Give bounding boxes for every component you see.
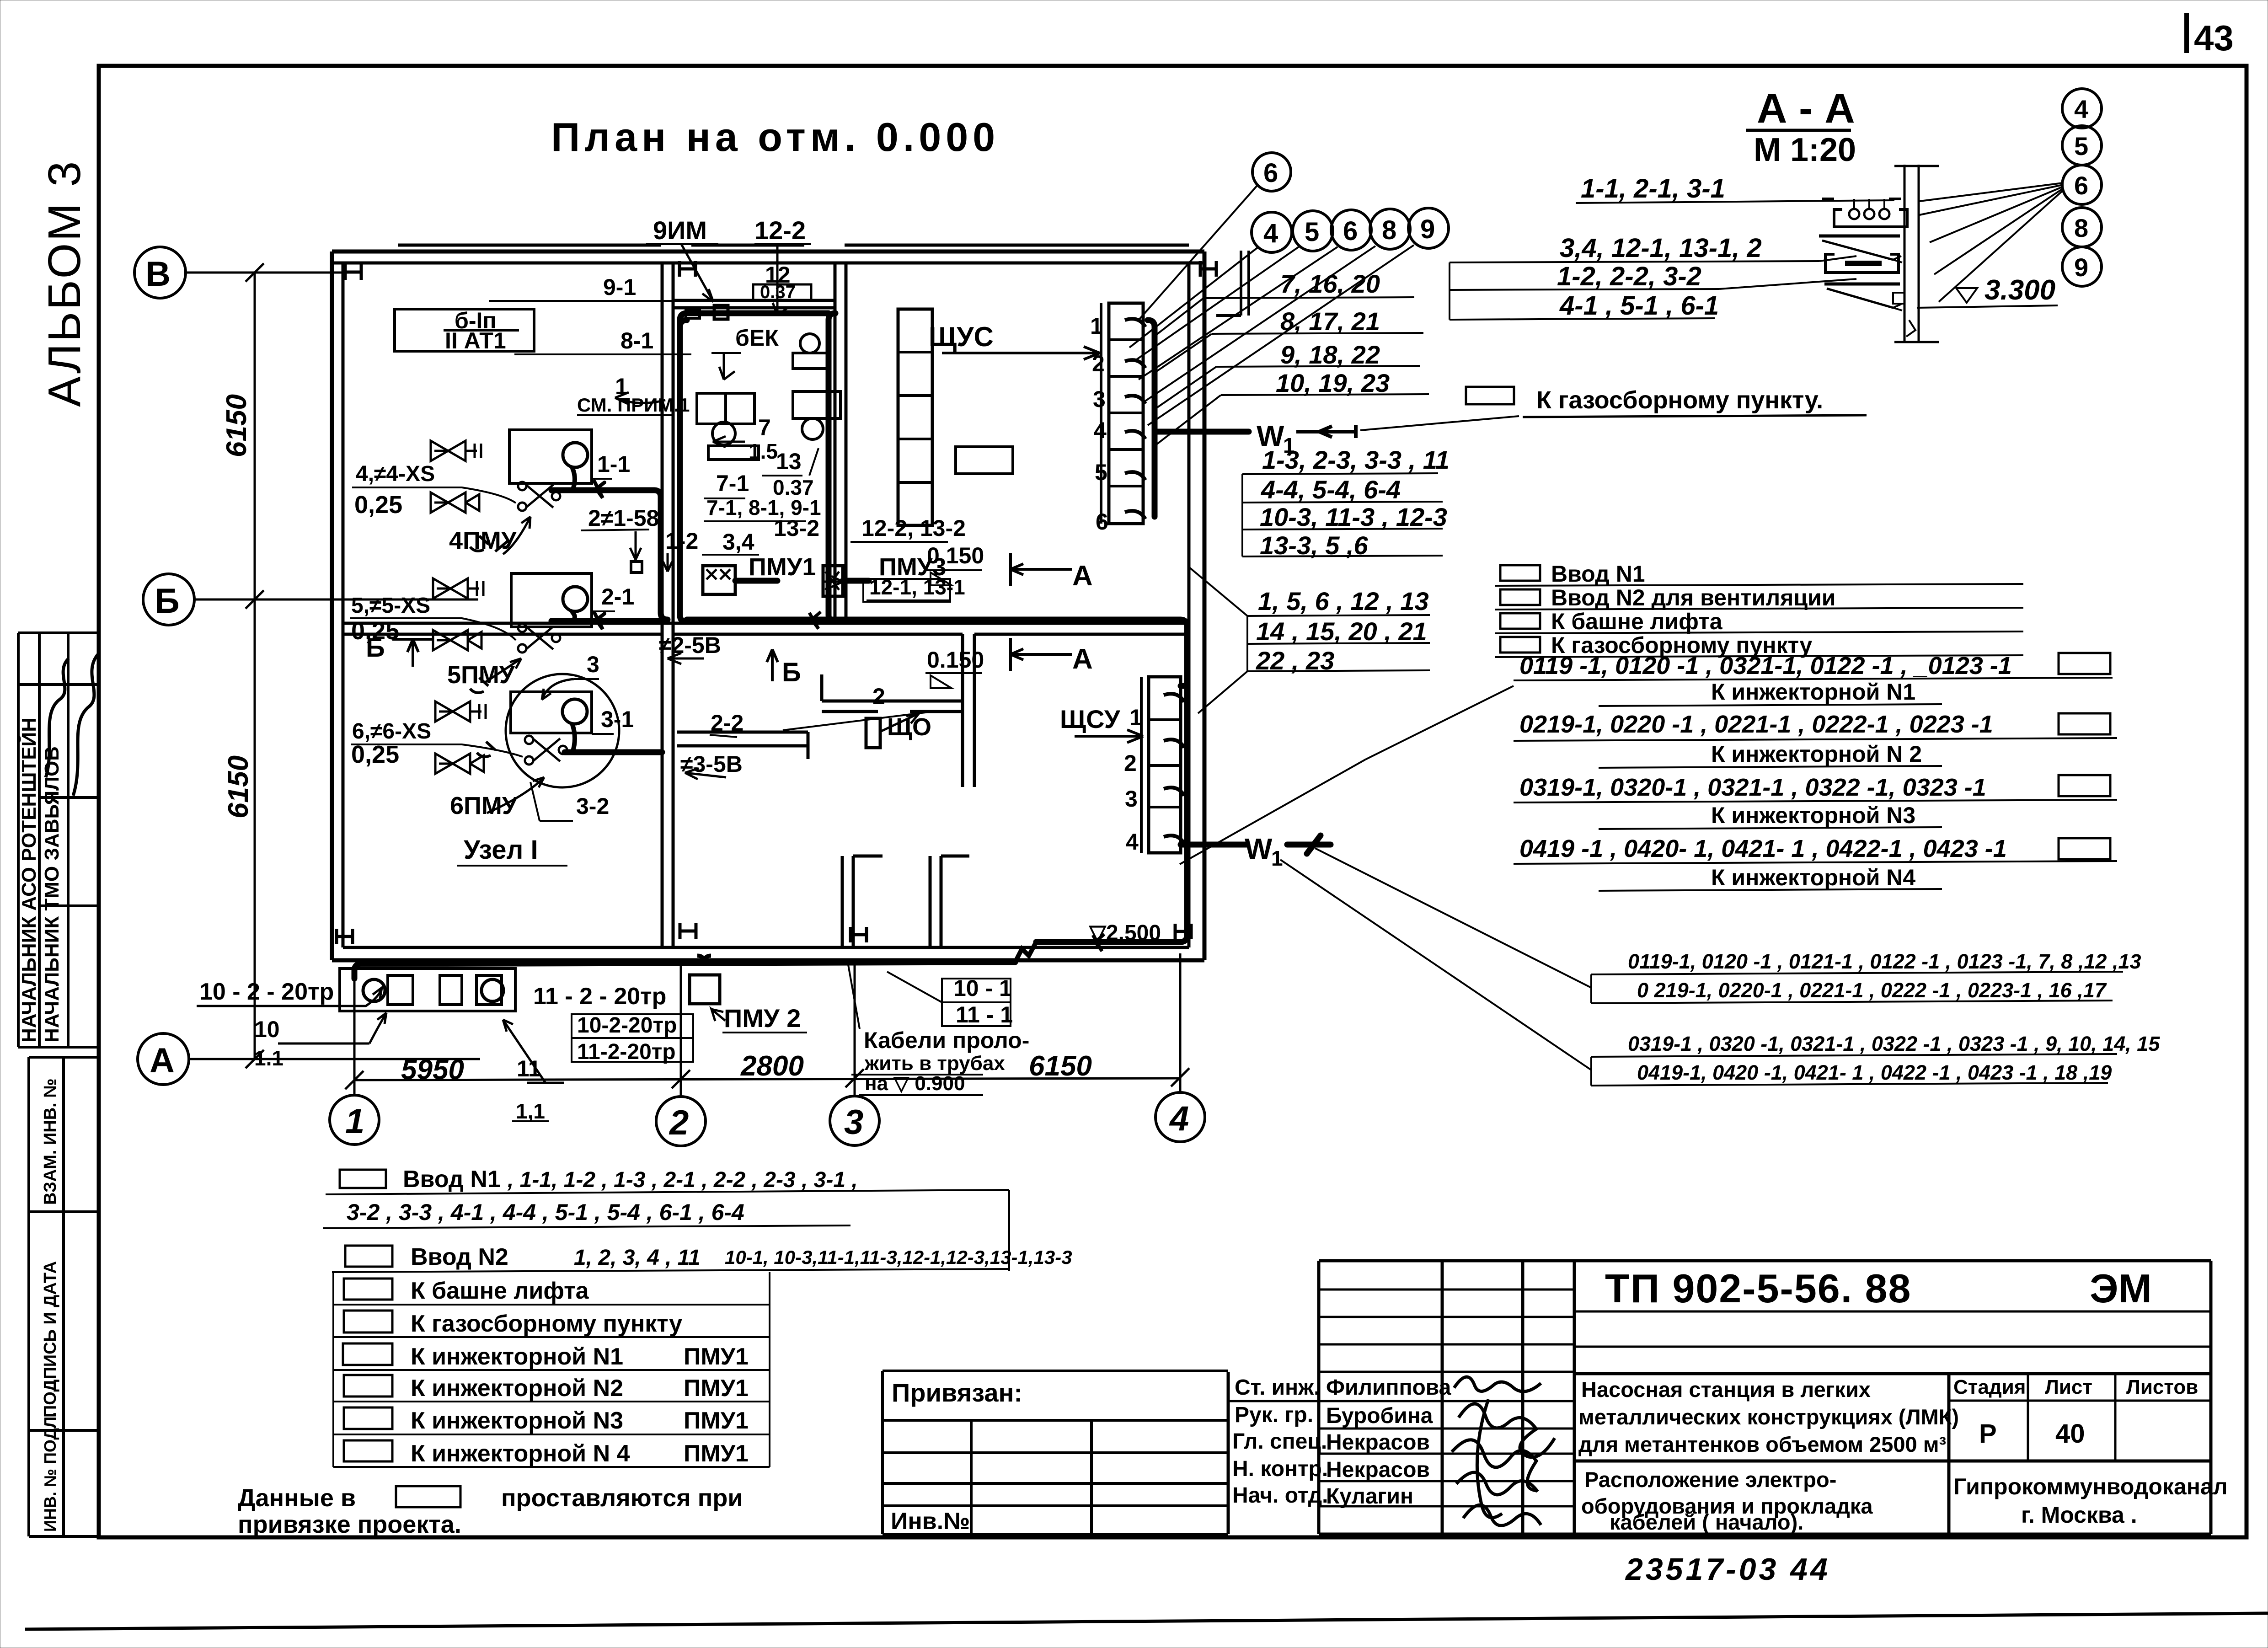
svg-text:Ввод N1: Ввод N1: [403, 1166, 501, 1193]
svg-text:6: 6: [2074, 171, 2088, 200]
svg-text:М 1:20: М 1:20: [1754, 132, 1856, 168]
ЩУС cable hooks: [1125, 319, 1145, 519]
svg-text:привязке проекта.: привязке проекта.: [238, 1511, 461, 1538]
svg-text:11 - 1: 11 - 1: [956, 1002, 1013, 1027]
svg-text:0 219-1, 0220-1 , 0221-1 ,: 0 219-1, 0220-1 , 0221-1 , 0222 -1 , 022…: [1637, 979, 2107, 1002]
svg-text:8, 17, 21: 8, 17, 21: [1280, 307, 1380, 336]
svg-text:1.1: 1.1: [254, 1046, 283, 1070]
fan from circle 6 to detail: [1920, 183, 2063, 302]
svg-text:К газосборному пункту.: К газосборному пункту.: [1536, 386, 1823, 414]
svg-text:0319-1, 0320-1 , 0321-1 , 0: 0319-1, 0320-1 , 0321-1 , 0322 -1, 0323 …: [1519, 774, 1986, 801]
grid axis bubble А: [138, 1033, 189, 1085]
grid axis bubble 2: [656, 1097, 706, 1146]
svg-text:4: 4: [1263, 219, 1278, 248]
branches to pumps: [551, 487, 654, 493]
svg-text:К инжекторной N1: К инжекторной N1: [1711, 679, 1915, 705]
svg-text:Стадия: Стадия: [1953, 1376, 2026, 1398]
svg-text:10, 19, 23: 10, 19, 23: [1276, 369, 1390, 397]
svg-text:12-2, 13-2: 12-2, 13-2: [861, 515, 966, 541]
little flex connectors left of pumps: [470, 536, 509, 757]
right circle column 4 5 6 8 9: [2062, 89, 2102, 286]
pipe at top right corner: [1216, 251, 1249, 316]
svg-text:Инв.№: Инв.№: [891, 1508, 970, 1535]
svg-text:6: 6: [1263, 158, 1278, 188]
svg-text:металлических конструкциях (Л: металлических конструкциях (ЛМК): [1578, 1405, 1959, 1429]
svg-text:6150: 6150: [223, 755, 254, 819]
svg-text:4: 4: [2074, 95, 2088, 123]
А-А upper cable tray with cables: [1834, 209, 1907, 227]
svg-text:1,1: 1,1: [516, 1099, 545, 1123]
svg-text:К инжекторной N 2: К инжекторной N 2: [1711, 741, 1922, 767]
svg-text:Буробина: Буробина: [1326, 1404, 1433, 1428]
svg-text:6,≠6-ХS: 6,≠6-ХS: [352, 719, 431, 744]
svg-text:2800: 2800: [740, 1050, 804, 1082]
svg-text:ИНВ. № ПОДЛ.: ИНВ. № ПОДЛ.: [41, 1412, 59, 1532]
wall window lines top: [691, 244, 804, 247]
svg-text:0.150: 0.150: [927, 647, 984, 673]
junction symbols near pumps: [518, 482, 567, 765]
corridor wall horizontal: [343, 622, 1189, 625]
Стадия Лист Листов: [1953, 1376, 2198, 1398]
grid axis bubble В: [134, 247, 186, 298]
roles and names: [1232, 1375, 1451, 1509]
second list group: [1256, 587, 1429, 675]
box lists below W1 upper: [1260, 445, 1450, 560]
svg-text:1-1: 1-1: [597, 451, 630, 477]
svg-text:2≠1-58: 2≠1-58: [588, 505, 659, 531]
lists left of А-А: [1557, 174, 1762, 321]
привязан table: [883, 1370, 1228, 1372]
svg-text:0119-1, 0120 -1 , 0121-1 ,: 0119-1, 0120 -1 , 0121-1 , 0122 -1 , 012…: [1628, 950, 2141, 973]
svg-text:7: 7: [758, 415, 771, 440]
tray break marks: [809, 612, 1104, 951]
svg-text:ЭМ: ЭМ: [2090, 1266, 2152, 1311]
partition segments near 2-2 room: [677, 731, 808, 734]
svg-text:0.150: 0.150: [927, 543, 984, 568]
ЩСУ feeder: [1181, 683, 1187, 689]
grid axis bubble Б: [143, 574, 194, 625]
box ПМУ1: [703, 566, 735, 594]
А-А wall section: [1904, 165, 1906, 343]
данные box: [396, 1486, 460, 1507]
svg-text:9ИМ: 9ИМ: [653, 216, 707, 245]
svg-text:Узел I: Узел I: [464, 835, 538, 865]
svg-text:II АТ1: II АТ1: [445, 328, 506, 353]
svg-text:Гипрокоммунводоканал: Гипрокоммунводоканал: [1953, 1474, 2228, 1499]
legend boxes Ввод rows: [1500, 565, 1540, 581]
box ПМУ2: [690, 975, 720, 1004]
svg-text:проставляются при: проставляются при: [501, 1484, 743, 1512]
svg-text:Рук. гр.: Рук. гр.: [1235, 1403, 1313, 1427]
узел I detail circle: [506, 674, 619, 787]
svg-text:0,25: 0,25: [354, 491, 402, 519]
svg-text:3-1: 3-1: [601, 706, 634, 732]
svg-text:1.5: 1.5: [749, 439, 778, 463]
svg-text:жить в трубах: жить в трубах: [864, 1052, 1005, 1075]
svg-text:5950: 5950: [401, 1054, 464, 1086]
svg-text:Листов: Листов: [2126, 1376, 2198, 1398]
right vertical down: [1180, 620, 1187, 942]
svg-text:для метантенков объемом 250: для метантенков объемом 2500 м³: [1578, 1432, 1946, 1456]
svg-text:План на отм. 0.000: План на отм. 0.000: [551, 114, 1000, 160]
svg-text:К инжекторной N3: К инжекторной N3: [411, 1407, 623, 1434]
interior wall vertical 3 (x~2118): [961, 634, 964, 787]
svg-text:23517-03 44: 23517-03 44: [1625, 1552, 1830, 1587]
svg-text:А - А: А - А: [1757, 85, 1855, 132]
svg-text:Филиппова: Филиппова: [1326, 1375, 1451, 1400]
svg-text:К башне лифта: К башне лифта: [1551, 609, 1723, 634]
svg-text:2: 2: [872, 684, 885, 709]
А-А detail drawing: [1819, 165, 2058, 343]
title block grid: [1227, 1372, 1230, 1534]
svg-text:НАЧАЛЬНИК АСО РОТЕНШТЕЙН: НАЧАЛЬНИК АСО РОТЕНШТЕЙН: [17, 717, 40, 1043]
svg-text:10: 10: [254, 1017, 280, 1042]
callout circle 6 (standalone): [1252, 153, 1291, 191]
bottom legend Ввод N2 box: [345, 1246, 392, 1267]
vertical run along wall1: [680, 320, 687, 622]
svg-text:Б: Б: [155, 582, 180, 621]
svg-text:6150: 6150: [221, 394, 252, 457]
legend box к газосборному пункту: [1466, 387, 1514, 404]
svg-text:≠2-5В: ≠2-5В: [659, 632, 721, 658]
svg-text:13: 13: [776, 449, 802, 474]
pump unit 2-1: [511, 573, 592, 627]
valve rows (bowties): [431, 441, 486, 774]
svg-text:Р: Р: [1979, 1419, 1997, 1449]
small bottom partitions: [841, 856, 844, 947]
stamp signatures: [46, 658, 69, 777]
lower cable lists: [1628, 950, 2160, 1084]
partition near ЩО: [822, 700, 963, 703]
bottom dimension line: [354, 1078, 1180, 1080]
svg-text:А: А: [1072, 560, 1093, 592]
grid axis bubble 3: [830, 1096, 879, 1145]
svg-text:5: 5: [1095, 460, 1107, 485]
circles row 4 5 6 8 9: [1252, 153, 1449, 252]
svg-text:3: 3: [844, 1103, 863, 1142]
level mark 3.300: [1956, 288, 1977, 303]
svg-text:10-2-20тр: 10-2-20тр: [577, 1013, 677, 1038]
svg-text:10 - 2 - 20тр: 10 - 2 - 20тр: [199, 979, 334, 1005]
outer wall left: [330, 251, 334, 960]
svg-text:0419 -1 , 0420- 1, 0421- 1 ,: 0419 -1 , 0420- 1, 0421- 1 , 0422-1 , 04…: [1519, 835, 2007, 862]
svg-text:3: 3: [1125, 786, 1138, 812]
svg-text:3-2: 3-2: [576, 793, 609, 819]
svg-text:40: 40: [2055, 1419, 2085, 1449]
svg-text:43: 43: [2194, 18, 2234, 58]
svg-text:Б: Б: [366, 633, 385, 663]
svg-text:2: 2: [1124, 750, 1137, 776]
svg-text:1: 1: [1271, 846, 1283, 870]
interior wall vertical 2 (x~1838): [834, 263, 837, 623]
svg-text:0419-1, 0420 -1, 0421- 1 ,: 0419-1, 0420 -1, 0421- 1 , 0422 -1 , 042…: [1637, 1061, 2112, 1084]
corridor run: [687, 617, 1180, 623]
svg-text:ТП 902-5-56. 88: ТП 902-5-56. 88: [1605, 1266, 1912, 1311]
svg-text:3: 3: [1093, 386, 1106, 412]
svg-text:Ввод N2: Ввод N2: [411, 1244, 508, 1270]
svg-text:3,4: 3,4: [722, 529, 754, 555]
middle room machines: [714, 305, 728, 319]
инжекторная rows: [1519, 652, 2012, 862]
svg-text:4: 4: [1169, 1099, 1189, 1138]
svg-text:7-1: 7-1: [716, 471, 749, 496]
svg-text:К башне лифта: К башне лифта: [411, 1278, 589, 1304]
lists right of ЩУС: [1276, 269, 1390, 397]
below-wall run to left: [361, 962, 1015, 964]
svg-text:5ПМУ: 5ПМУ: [447, 661, 515, 689]
svg-text:, 1-1, 1-2 , 1-3 , 2-1 , 2-2: , 1-1, 1-2 , 1-3 , 2-1 , 2-2 , 2-3 , 3-1…: [507, 1168, 858, 1192]
svg-text:К инжекторной N2: К инжекторной N2: [411, 1375, 623, 1402]
svg-text:1, 5, 6 , 12 , 13: 1, 5, 6 , 12 , 13: [1258, 587, 1429, 615]
callout circles 4 5 6 8 9 row: [1252, 212, 1292, 252]
project description: [1578, 1377, 1959, 1534]
svg-text:2-1: 2-1: [601, 584, 634, 610]
top connect: [680, 320, 687, 327]
svg-text:АЛЬБОМ 3: АЛЬБОМ 3: [39, 160, 90, 407]
svg-text:10-3, 11-3 , 12-3: 10-3, 11-3 , 12-3: [1260, 503, 1447, 531]
svg-text:4,≠4-ХS: 4,≠4-ХS: [356, 462, 435, 486]
svg-text:9: 9: [1420, 214, 1435, 244]
svg-text:ВЗАМ. ИНВ. №: ВЗАМ. ИНВ. №: [41, 1078, 60, 1205]
svg-text:5: 5: [2074, 132, 2088, 161]
W1 upper arrow: [1296, 425, 1356, 438]
bottom legend Ввод N1 box: [340, 1170, 386, 1188]
svg-text:СМ. ПРИМ.1: СМ. ПРИМ.1: [577, 394, 690, 416]
vestibule wall in middle room: [673, 299, 835, 302]
svg-text:8: 8: [2074, 214, 2088, 242]
svg-text:К инжекторной N 4: К инжекторной N 4: [411, 1440, 630, 1467]
svg-text:13-2: 13-2: [774, 515, 819, 541]
svg-text:0219-1, 0220 -1 , 0221-1 ,: 0219-1, 0220 -1 , 0221-1 , 0222-1 , 0223…: [1519, 711, 1993, 738]
svg-text:А: А: [150, 1041, 175, 1080]
svg-text:НАЧАЛЬНИК ТМО ЗАВЬЯЛОВ: НАЧАЛЬНИК ТМО ЗАВЬЯЛОВ: [41, 746, 63, 1043]
svg-text:1: 1: [345, 1102, 364, 1141]
svg-text:Расположение электро-: Расположение электро-: [1584, 1467, 1836, 1492]
svg-text:11 - 2 - 20тр: 11 - 2 - 20тр: [533, 983, 666, 1010]
svg-text:3-2 , 3-3 , 4-1 , 4-4 , 5-1: 3-2 , 3-3 , 4-1 , 4-4 , 5-1 , 5-4 , 6-1 …: [347, 1199, 744, 1225]
svg-text:6: 6: [1343, 216, 1358, 246]
signatures scribbles: [1452, 1377, 1555, 1525]
svg-text:4-1 , 5-1 , 6-1: 4-1 , 5-1 , 6-1: [1559, 291, 1719, 321]
svg-text:г. Москва .: г. Москва .: [2021, 1502, 2137, 1528]
bottom run right section: [1036, 939, 1180, 945]
svg-text:Лист: Лист: [2045, 1376, 2092, 1398]
svg-text:6: 6: [1096, 509, 1108, 535]
svg-text:Н. контр.: Н. контр.: [1232, 1457, 1328, 1481]
svg-text:ЩСУ: ЩСУ: [1060, 705, 1121, 733]
svg-text:0119 -1, 0120 -1 , 0321-1,: 0119 -1, 0120 -1 , 0321-1, 0122 -1 , _01…: [1519, 652, 2012, 680]
box ЩО: [866, 718, 880, 748]
branch to ПМУ1 and ПМУ3: [735, 578, 777, 584]
svg-text:К инжекторной N1: К инжекторной N1: [411, 1343, 623, 1370]
svg-text:1: 1: [1129, 705, 1142, 730]
svg-text:ПМУ1: ПМУ1: [684, 1440, 749, 1467]
svg-text:А: А: [1072, 643, 1093, 675]
svg-text:К инжекторной N3: К инжекторной N3: [1711, 803, 1915, 828]
machine platform units 10,11: [340, 968, 515, 1011]
pump unit 3-1: [511, 692, 592, 733]
svg-text:Некрасов: Некрасов: [1326, 1458, 1430, 1482]
legend table: [332, 1269, 1009, 1467]
svg-text:4: 4: [1126, 829, 1139, 855]
svg-text:4-4, 5-4, 6-4: 4-4, 5-4, 6-4: [1261, 475, 1401, 504]
svg-text:6ПМУ: 6ПМУ: [450, 792, 518, 819]
svg-text:1: 1: [1090, 313, 1103, 339]
svg-text:Ст. инж.: Ст. инж.: [1235, 1375, 1320, 1400]
svg-text:Некрасов: Некрасов: [1326, 1430, 1430, 1455]
left stamp column: [18, 633, 99, 1536]
leader fan from circles to panel: [1129, 185, 1414, 425]
svg-text:1-3, 2-3, 3-3 , 11: 1-3, 2-3, 3-3 , 11: [1262, 445, 1450, 474]
svg-text:К инжекторной N4: К инжекторной N4: [1711, 865, 1915, 890]
svg-text:1-2: 1-2: [665, 528, 698, 554]
interior wall vertical 1 (x~1460): [661, 263, 664, 947]
svg-text:8: 8: [1382, 215, 1396, 245]
ventilation shaft stack: [898, 309, 932, 525]
svg-text:11-2-20тр: 11-2-20тр: [577, 1040, 676, 1064]
panel ЩСУ: [1149, 677, 1181, 853]
box ПМУ3: [823, 566, 843, 596]
svg-text:Нач. отд.: Нач. отд.: [1232, 1483, 1328, 1508]
svg-text:9, 18, 22: 9, 18, 22: [1280, 340, 1380, 369]
svg-text:кабелей ( начало).: кабелей ( начало).: [1610, 1510, 1803, 1534]
svg-text:9-1: 9-1: [603, 274, 636, 300]
svg-text:Данные в: Данные в: [238, 1484, 356, 1512]
step zigzag: [1015, 942, 1036, 962]
svg-text:4: 4: [1094, 417, 1107, 443]
svg-text:ПМУ1: ПМУ1: [684, 1343, 749, 1370]
svg-text:Ввод N1: Ввод N1: [1551, 561, 1645, 587]
svg-text:6150: 6150: [1029, 1050, 1092, 1082]
svg-text:ПМУ1: ПМУ1: [749, 553, 816, 581]
svg-text:W: W: [1245, 832, 1273, 865]
svg-text:Ввод N2 для вентиляции: Ввод N2 для вентиляции: [1551, 585, 1836, 610]
svg-text:2: 2: [669, 1103, 689, 1142]
room tag box б-Iп / II АТ1: [395, 309, 534, 351]
vertical run wall2: [829, 320, 835, 622]
outer wall right: [1203, 251, 1207, 960]
svg-text:3,4, 12-1, 13-1, 2: 3,4, 12-1, 13-1, 2: [1560, 233, 1762, 263]
panel ЩУС: [1109, 303, 1143, 524]
sheet number divider: [2184, 13, 2189, 53]
А-А lower cable tray: [1825, 254, 1899, 273]
svg-text:Б: Б: [782, 658, 801, 687]
axis tick symbols on walls: [337, 261, 1216, 944]
ЩУС feeder: [1148, 320, 1155, 517]
svg-text:Кабели проло-: Кабели проло-: [864, 1027, 1029, 1053]
svg-text:1-1, 2-1, 3-1: 1-1, 2-1, 3-1: [1581, 174, 1725, 203]
svg-text:Гл. спец.: Гл. спец.: [1232, 1429, 1327, 1454]
grid axis bubble 4: [1155, 1092, 1205, 1142]
svg-text:на ▽ 0.900: на ▽ 0.900: [865, 1072, 965, 1095]
svg-text:7, 16, 20: 7, 16, 20: [1280, 269, 1380, 298]
callout circles 4 5 6 8 9 column: [2062, 89, 2102, 128]
svg-text:9: 9: [2074, 253, 2088, 282]
svg-text:ЩУС: ЩУС: [929, 321, 994, 352]
svg-text:2-2: 2-2: [711, 710, 744, 736]
svg-text:0319-1 , 0320 -1, 0321-1 ,: 0319-1 , 0320 -1, 0321-1 , 0322 -1 , 032…: [1628, 1032, 2160, 1055]
outer wall top: [332, 250, 1204, 254]
svg-text:ПМУ1: ПМУ1: [684, 1407, 749, 1434]
svg-text:бЕК: бЕК: [735, 325, 779, 351]
svg-text:К газосборному пункту: К газосборному пункту: [411, 1311, 682, 1337]
svg-text:ПОДПИСЬ И ДАТА: ПОДПИСЬ И ДАТА: [41, 1261, 60, 1418]
svg-text:Насосная станция в легких: Насосная станция в легких: [1581, 1377, 1871, 1402]
svg-text:12-2: 12-2: [754, 216, 806, 245]
svg-text:3.300: 3.300: [1984, 274, 2055, 306]
svg-text:ПМУ1: ПМУ1: [684, 1375, 749, 1402]
grid axis bubble 1: [330, 1095, 379, 1145]
svg-text:8-1: 8-1: [620, 328, 653, 353]
svg-text:1, 2, 3, 4 , 11: 1, 2, 3, 4 , 11: [574, 1246, 701, 1270]
svg-text:Привязан:: Привязан:: [892, 1378, 1022, 1407]
svg-text:▽2.500: ▽2.500: [1088, 921, 1161, 945]
pump unit 1-1: [509, 430, 592, 483]
label leader lines / underlines in plan: [197, 244, 1143, 1121]
svg-text:10-1, 10-3,11-1,11-3,12-1,12-3: 10-1, 10-3,11-1,11-3,12-1,12-3,13-1,13-3: [725, 1247, 1072, 1268]
svg-text:Кулагин: Кулагин: [1326, 1484, 1413, 1509]
svg-text:5: 5: [1305, 217, 1319, 247]
svg-text:5,≠5-ХS: 5,≠5-ХS: [351, 594, 430, 618]
svg-text:В: В: [145, 255, 171, 294]
svg-text:3: 3: [587, 652, 599, 677]
ЩСУ cable hooks: [1164, 694, 1184, 844]
vertical dimension line: [254, 273, 256, 1059]
svg-text:1-2, 2-2, 3-2: 1-2, 2-2, 3-2: [1557, 262, 1701, 291]
outer wall bottom: [332, 958, 1204, 963]
svg-text:14 , 15, 20 , 21: 14 , 15, 20 , 21: [1256, 617, 1427, 646]
svg-text:ПМУ 2: ПМУ 2: [724, 1004, 801, 1033]
paper bottom edge line: [25, 1613, 2268, 1629]
